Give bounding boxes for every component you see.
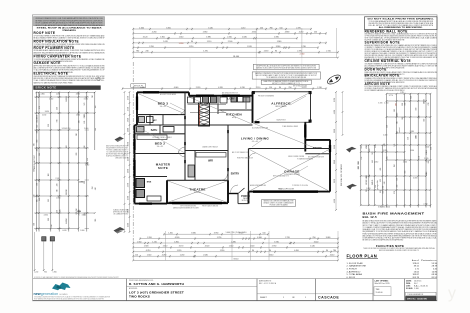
roof diagonal living2 (253, 123, 316, 148)
ldry trough (243, 97, 250, 102)
svg-text:FLOOR PLAN: FLOOR PLAN (347, 254, 378, 259)
extension to plan (255, 58, 257, 88)
svg-text:510: 510 (394, 109, 396, 112)
svg-text:3.190: 3.190 (378, 102, 382, 104)
svg-text:ENS: ENS (147, 182, 152, 184)
svg-text:4.390: 4.390 (334, 199, 336, 203)
porch bottom wall (238, 203, 249, 205)
svg-text:1.540: 1.540 (147, 255, 152, 257)
svg-text:4.350: 4.350 (44, 214, 48, 216)
svg-text:4.210: 4.210 (146, 250, 151, 252)
svg-text:2.620: 2.620 (366, 188, 370, 190)
svg-text:840: 840 (84, 121, 86, 124)
svg-text:2.830: 2.830 (76, 114, 80, 116)
svg-text:1.210: 1.210 (189, 46, 194, 48)
svg-text:2.760: 2.760 (272, 246, 277, 248)
svg-text:530: 530 (394, 144, 396, 147)
svg-text:3.360: 3.360 (410, 150, 414, 152)
svg-text:2.440: 2.440 (383, 134, 387, 136)
svg-text:3.610: 3.610 (269, 255, 274, 257)
svg-text:90x90 POST: 90x90 POST (276, 120, 285, 122)
svg-text:3.230: 3.230 (383, 150, 387, 152)
svg-text:BED 3: BED 3 (158, 102, 169, 106)
svg-text:860: 860 (37, 115, 39, 118)
svg-text:1.850: 1.850 (174, 241, 179, 243)
svg-text:LIVING / DINING: LIVING / DINING (241, 137, 270, 141)
svg-text:2.530: 2.530 (49, 98, 53, 100)
svg-text:3.140: 3.140 (208, 27, 213, 29)
svg-text:4. ALFRESCO: 4. ALFRESCO (347, 270, 361, 273)
section bubble symbol (326, 73, 342, 86)
alfresco left wall (252, 92, 254, 123)
svg-text:930: 930 (423, 119, 425, 122)
svg-text:710: 710 (92, 95, 94, 98)
svg-text:Wed 02 Dec 2015: Wed 02 Dec 2015 (375, 283, 390, 285)
svg-text:KITCHEN: KITCHEN (226, 113, 242, 117)
svg-text:1.580: 1.580 (128, 196, 130, 200)
svg-text:260: 260 (369, 174, 371, 177)
svg-text:183.87: 183.87 (412, 274, 419, 276)
store top wall (305, 139, 330, 141)
svg-text:1.370: 1.370 (203, 51, 208, 53)
exterior left wall lower (134, 125, 136, 204)
svg-text:740: 740 (384, 181, 386, 184)
svg-text:3.580: 3.580 (410, 131, 414, 133)
svg-text:3.090: 3.090 (76, 94, 80, 96)
svg-text:3.210: 3.210 (66, 128, 70, 130)
svg-text:4.520: 4.520 (205, 246, 210, 248)
svg-text:230: 230 (145, 51, 148, 53)
linen2 (188, 165, 195, 177)
wall dimension row above plan (123, 88, 327, 90)
label leader lines (170, 103, 184, 110)
svg-text:1.800: 1.800 (80, 230, 84, 232)
svg-text:WC: WC (153, 120, 157, 122)
svg-text:4.600: 4.600 (425, 146, 429, 148)
svg-text:130: 130 (372, 180, 374, 183)
svg-text:69.36: 69.36 (432, 274, 438, 276)
svg-text:2.130: 2.130 (317, 87, 322, 89)
brick note dark bar (34, 86, 101, 90)
entry bottom wall (228, 193, 238, 195)
svg-text:490: 490 (79, 120, 81, 123)
svg-text:BE COMPLETION BE WITH: BE COMPLETION BE WITH (308, 157, 324, 159)
svg-text:90: 90 (269, 250, 271, 252)
svg-text:2.520: 2.520 (424, 158, 428, 160)
svg-text:2.320: 2.320 (196, 87, 201, 89)
theatre top wall (167, 179, 228, 181)
svg-text:840: 840 (411, 96, 413, 99)
svg-text:880: 880 (36, 140, 38, 143)
entry front door (238, 188, 245, 194)
svg-text:280: 280 (358, 162, 360, 165)
svg-text:PANEL LIFT DOOR: PANEL LIFT DOOR (278, 188, 294, 191)
svg-text:3.430: 3.430 (82, 214, 86, 216)
svg-text:150: 150 (394, 164, 396, 167)
porch left wall (237, 194, 239, 204)
svg-text:550: 550 (408, 137, 410, 140)
bed3 bottom wall (137, 114, 185, 116)
svg-text:3.250: 3.250 (62, 128, 66, 130)
left inner vertical dim (124, 92, 126, 232)
svg-text:2.110: 2.110 (256, 87, 260, 89)
left setout strip drawing (35, 92, 37, 232)
svg-text:100: 100 (48, 218, 50, 221)
svg-text:4.020: 4.020 (386, 207, 390, 209)
svg-text:3.170: 3.170 (179, 246, 184, 248)
store right glazing (329, 145, 331, 152)
svg-text:PORCH: PORCH (241, 195, 250, 198)
svg-text:1.850: 1.850 (77, 211, 81, 213)
svg-text:1.020: 1.020 (334, 160, 336, 164)
title block (33, 278, 437, 280)
svg-text:800: 800 (387, 156, 389, 159)
svg-text:1.340: 1.340 (229, 246, 234, 248)
svg-text:2.250: 2.250 (149, 46, 154, 48)
svg-text:710: 710 (57, 189, 59, 192)
ldry bottom (218, 109, 253, 111)
svg-text:4.930: 4.930 (274, 37, 279, 39)
kitchen bench cells (188, 97, 194, 103)
svg-text:110: 110 (269, 87, 272, 89)
svg-text:90: 90 (279, 87, 281, 89)
svg-text:1.950: 1.950 (220, 250, 225, 252)
door arc garage (249, 153, 256, 160)
bed2 bottom wall (135, 153, 186, 155)
svg-text:BATH: BATH (151, 129, 158, 132)
svg-text:1.250: 1.250 (56, 94, 60, 96)
svg-text:BE SETOUT COMPLETION APPROVED: BE SETOUT COMPLETION APPROVED NOTES APPR… (363, 239, 404, 242)
svg-text:490: 490 (95, 187, 97, 190)
svg-text:1.270: 1.270 (302, 87, 307, 89)
svg-text:2.430: 2.430 (423, 203, 427, 205)
svg-text:220: 220 (48, 124, 50, 127)
door arc theatre (221, 174, 228, 181)
door arc entry (231, 185, 239, 193)
svg-text:2.810: 2.810 (374, 161, 378, 163)
svg-text:670: 670 (366, 182, 368, 185)
svg-text:210: 210 (57, 107, 59, 110)
svg-text:1.530: 1.530 (400, 92, 404, 94)
svg-text:3.730: 3.730 (128, 107, 130, 111)
svg-text:1.320: 1.320 (177, 250, 182, 252)
svg-text:generation: generation (41, 292, 58, 296)
svg-text:4.890: 4.890 (285, 32, 290, 34)
svg-text:39.11: 39.11 (414, 266, 420, 268)
svg-text:2.850: 2.850 (56, 197, 60, 199)
svg-text:170: 170 (372, 152, 374, 155)
svg-text:290: 290 (416, 136, 418, 139)
ensuite bottom wall (135, 203, 168, 205)
svg-text:CASCADE: CASCADE (318, 295, 339, 299)
svg-text:4.690: 4.690 (413, 177, 417, 179)
svg-text:2.670: 2.670 (264, 51, 269, 53)
svg-text:ALL DIMENSIONS TO BRICKWORK.: ALL DIMENSIONS TO BRICKWORK. (379, 26, 424, 29)
ens vanity (147, 196, 161, 201)
garage diagonal a (250, 150, 330, 192)
svg-text:TWO ROCKS: TWO ROCKS (129, 294, 150, 298)
shower divider (162, 115, 164, 125)
note box 2 (252, 72, 320, 79)
svg-text:BBC - 01.12.15 REV A: BBC - 01.12.15 REV A (259, 282, 277, 285)
svg-text:4.630: 4.630 (242, 37, 247, 39)
svg-text:UNDER CONFIRM CONFIRM: UNDER CONFIRM CONFIRM (288, 156, 305, 158)
svg-text:710: 710 (361, 146, 363, 149)
vanity fixture (163, 127, 174, 133)
svg-text:730: 730 (428, 103, 430, 106)
svg-text:Perimeter m: Perimeter m (421, 259, 437, 262)
svg-text:BRICK NOTE: BRICK NOTE (36, 86, 57, 90)
svg-text:780: 780 (333, 250, 336, 252)
svg-text:y: y (448, 285, 456, 302)
svg-text:1.540: 1.540 (310, 246, 315, 248)
svg-text:2.370: 2.370 (297, 51, 302, 53)
svg-text:920: 920 (402, 117, 404, 120)
svg-text:380: 380 (36, 148, 38, 151)
bath cell divider (159, 125, 161, 134)
svg-text:ENTRY: ENTRY (231, 173, 240, 176)
dim extension verticals (255, 28, 257, 58)
svg-text:90: 90 (191, 41, 193, 43)
svg-text:520: 520 (79, 111, 81, 114)
svg-text:3.960: 3.960 (128, 142, 130, 146)
electrical symbol (97, 77, 100, 80)
svg-text:600: 600 (383, 186, 385, 189)
ldry bench (245, 97, 247, 110)
garage panel door (253, 190, 318, 193)
linen hatched cupboard (199, 103, 210, 126)
porch right wall (248, 192, 250, 204)
fridge cell (220, 97, 227, 103)
wir left wall (194, 151, 196, 181)
svg-text:930: 930 (380, 190, 382, 193)
ensuite window bottom (139, 202, 152, 204)
svg-text:1.920: 1.920 (144, 246, 149, 248)
svg-text:2.720: 2.720 (326, 51, 331, 53)
svg-text:590: 590 (84, 181, 86, 184)
shower fixture (147, 117, 154, 123)
svg-text:2.870: 2.870 (334, 179, 336, 183)
strip tail lines (34, 232, 36, 271)
svg-text:600: 600 (37, 199, 39, 202)
red accent on linen (199, 104, 201, 125)
svg-text:ALFRESCO: ALFRESCO (271, 102, 291, 106)
garage left wall (248, 149, 250, 192)
svg-text:4.230: 4.230 (240, 87, 245, 89)
svg-text:3.730: 3.730 (274, 241, 279, 243)
track end block (255, 121, 260, 123)
svg-text:270: 270 (394, 191, 396, 194)
svg-text:1.230: 1.230 (128, 157, 130, 161)
svg-text:LAST OPENED:: LAST OPENED: (375, 279, 389, 282)
svg-text:890: 890 (384, 143, 386, 146)
svg-text:2.720: 2.720 (285, 237, 290, 239)
svg-text:3.700: 3.700 (147, 237, 152, 239)
svg-text:3.080: 3.080 (326, 237, 331, 239)
svg-text:250: 250 (312, 237, 315, 239)
svg-text:AMENDMENTS:: AMENDMENTS: (259, 279, 272, 282)
svg-text:2.000: 2.000 (128, 128, 130, 132)
svg-text:BAL 12.5: BAL 12.5 (363, 215, 377, 219)
svg-text:BRICK SETOUT: BRICK SETOUT (34, 154, 36, 169)
svg-text:DRG No: 12345 WD: DRG No: 12345 WD (407, 297, 427, 300)
svg-text:1.210: 1.210 (152, 241, 157, 243)
note box 1 (253, 64, 319, 69)
svg-text:310: 310 (51, 224, 53, 227)
svg-text:ON CLEANED APPROVED: ON CLEANED APPROVED (113, 213, 129, 216)
grey legend box (34, 17, 105, 26)
survey marker symbol lower (114, 227, 126, 234)
svg-text:140: 140 (372, 182, 374, 185)
svg-text:220: 220 (48, 199, 50, 202)
svg-text:1.210: 1.210 (241, 27, 246, 29)
svg-text:1.110: 1.110 (207, 41, 211, 43)
svg-text:2.640: 2.640 (203, 255, 208, 257)
svg-text:280: 280 (396, 103, 398, 106)
svg-text:4.620: 4.620 (62, 230, 66, 232)
svg-text:NATURAL SOIL RETAINED: NATURAL SOIL RETAINED (340, 163, 343, 186)
svg-text:2.260: 2.260 (227, 37, 232, 39)
cascade cell (316, 293, 374, 295)
svg-text:350: 350 (358, 166, 360, 169)
svg-text:830: 830 (66, 96, 68, 99)
door arc master (179, 151, 186, 158)
svg-text:TO IN SARKING SPECIFICATIONS S: TO IN SARKING SPECIFICATIONS SPECIFICATI… (266, 76, 307, 79)
svg-text:2.370: 2.370 (296, 27, 301, 29)
alfresco post right (309, 91, 312, 94)
door arc bed2 (179, 147, 186, 154)
svg-text:BE ROOF ENGINEERS ON DOWN COMP: BE ROOF ENGINEERS ON DOWN COMPLY ROOF FI… (379, 250, 419, 252)
svg-text:140: 140 (95, 105, 97, 108)
svg-text:SARKING TILES COMPLY NOTES PRO: SARKING TILES COMPLY NOTES PROVIDE BE WI… (256, 66, 317, 69)
svg-text:2.220: 2.220 (334, 145, 336, 149)
svg-text:400: 400 (380, 168, 382, 171)
svg-text:160: 160 (57, 210, 59, 213)
svg-text:4.360: 4.360 (257, 237, 262, 239)
living right wall (304, 122, 306, 151)
window bed3 top (143, 91, 159, 93)
entry / kitchen wall (227, 125, 229, 180)
svg-text:520: 520 (387, 125, 389, 128)
svg-text:2.180: 2.180 (334, 129, 336, 133)
svg-text:L5 ROBE / DESK + SHELF: L5 ROBE / DESK + SHELF (152, 137, 171, 139)
window bed2 left (133, 139, 135, 150)
overall width dimension (133, 57, 338, 59)
svg-text:3.940: 3.940 (191, 233, 196, 235)
svg-text:240: 240 (39, 198, 41, 201)
svg-text:660: 660 (87, 158, 89, 161)
svg-text:4.5 x 6.5: 4.5 x 6.5 (252, 141, 259, 143)
svg-text:SETOUT TO PRIOR CLEANED IN TO: SETOUT TO PRIOR CLEANED IN TO TO (272, 82, 301, 85)
svg-text:14.96: 14.96 (432, 271, 438, 273)
right vertical dimension line (335, 92, 337, 210)
svg-text:4.860: 4.860 (40, 94, 44, 96)
svg-text:340: 340 (57, 183, 59, 186)
exterior left wall upper (136, 92, 138, 125)
svg-text:THEATRE: THEATRE (189, 188, 205, 192)
svg-text:310: 310 (66, 189, 68, 192)
svg-text:580: 580 (416, 108, 418, 111)
svg-text:STORE: STORE (313, 146, 322, 150)
bottom overall dim (133, 259, 338, 261)
svg-text:18.460: 18.460 (233, 56, 240, 58)
boundary dash-dot line (132, 62, 134, 240)
svg-text:190: 190 (66, 218, 68, 221)
bath fixture (137, 127, 145, 133)
garage right wall (329, 140, 331, 192)
svg-text:3.050: 3.050 (85, 164, 89, 166)
svg-text:3.140: 3.140 (314, 241, 319, 243)
svg-text:250: 250 (260, 27, 263, 29)
svg-text:L'DRY: L'DRY (227, 98, 235, 101)
svg-text:4.900: 4.900 (252, 32, 257, 34)
svg-text:660: 660 (366, 175, 368, 178)
svg-text:3.960: 3.960 (276, 46, 281, 48)
svg-text:870: 870 (57, 119, 59, 122)
svg-text:SHEET: SHEET (260, 297, 267, 299)
svg-text:110: 110 (423, 101, 425, 104)
svg-text:410: 410 (397, 185, 399, 188)
svg-text:4.260: 4.260 (152, 32, 157, 34)
svg-text:2.060: 2.060 (128, 169, 130, 173)
bath top cells wall (137, 124, 185, 126)
master/wir wall (185, 150, 228, 152)
svg-text:170: 170 (39, 106, 41, 109)
theatre window bottom (172, 202, 222, 205)
svg-text:GARAGE: GARAGE (284, 170, 299, 174)
exterior wall top kitchen (189, 95, 253, 97)
door arc bed3 (178, 108, 185, 115)
sliding door living right (304, 125, 306, 138)
theatre diagonal b (168, 181, 227, 202)
svg-text:310: 310 (36, 117, 38, 120)
alfresco right wall (310, 92, 312, 123)
svg-text:800: 800 (39, 153, 41, 156)
svg-text:3.0 x 3.1: 3.0 x 3.1 (157, 146, 164, 148)
store bottom wall (305, 153, 330, 155)
sheet border frame (33, 15, 438, 301)
alfresco bottom edge (305, 121, 311, 123)
svg-text:3.350: 3.350 (166, 27, 171, 29)
svg-text:780: 780 (269, 27, 272, 29)
svg-text:1.210: 1.210 (128, 223, 130, 227)
hall door jambs (184, 116, 186, 119)
svg-text:830: 830 (37, 125, 39, 128)
svg-text:950: 950 (405, 171, 407, 174)
svg-text:SUITE: SUITE (158, 166, 168, 170)
svg-text:900: 900 (44, 272, 47, 274)
master bottom / ens wall (135, 176, 168, 178)
svg-text:260: 260 (39, 179, 41, 182)
svg-text:1.230: 1.230 (180, 255, 185, 257)
garage diagonal b (250, 150, 330, 192)
svg-text:1.310: 1.310 (179, 37, 184, 39)
svg-text:230: 230 (59, 209, 61, 212)
svg-text:BED 2: BED 2 (155, 142, 166, 146)
svg-text:1.890: 1.890 (179, 43, 184, 45)
svg-text:1.200: 1.200 (34, 272, 38, 274)
note box 3 (261, 80, 311, 84)
svg-text:1.350: 1.350 (137, 241, 142, 243)
svg-text:790: 790 (36, 183, 38, 186)
svg-text:ROOF TIMBERS SARKING FOOTING A: ROOF TIMBERS SARKING FOOTING ALL PRIOR R… (365, 89, 405, 92)
svg-text:180: 180 (375, 145, 377, 148)
svg-text:2.180: 2.180 (42, 114, 46, 116)
svg-text:1:100: 1:100 (414, 288, 419, 290)
wall jog kitchen/bed3 (188, 92, 190, 95)
svg-text:570: 570 (418, 156, 420, 159)
kitchen bench (190, 112, 226, 114)
